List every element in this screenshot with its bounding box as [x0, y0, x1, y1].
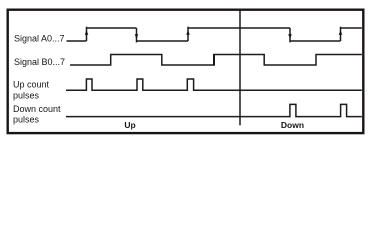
svg-text:Down count: Down count [13, 104, 61, 114]
svg-text:Signal B0...7: Signal B0...7 [14, 57, 65, 67]
svg-text:Signal A0...7: Signal A0...7 [14, 34, 65, 44]
svg-text:pulses: pulses [13, 90, 40, 100]
svg-text:Up: Up [124, 120, 135, 130]
svg-text:Up count: Up count [13, 80, 50, 90]
svg-text:pulses: pulses [13, 115, 40, 125]
svg-text:Down: Down [281, 120, 304, 130]
